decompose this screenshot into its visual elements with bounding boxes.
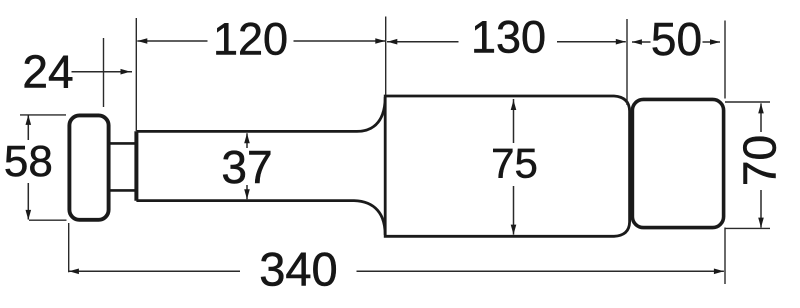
shaft (37 dia) with flare to cylinder [136,97,385,235]
svg-text:24: 24 [22,46,73,98]
extension line knob-left down to 340 line [68,223,70,272]
dimension 75 (vertical, inside cylinder) [513,99,515,235]
extension line C (x=385.7) [385,17,387,96]
svg-text:70: 70 [734,135,786,186]
main cylinder (75 dia, 130 long) [385,96,629,236]
dimension 340 [69,270,724,272]
right cap (70 dia, 50 long) [632,99,723,227]
knob (left end cap, 58 dia) [69,115,108,219]
extension lines for 70 [725,102,770,228]
svg-text:37: 37 [221,141,272,193]
neck between knob and shaft [109,143,136,190]
svg-text:75: 75 [491,139,538,186]
extension line A (x=103.5) [103,38,105,107]
svg-text:340: 340 [259,243,337,296]
dimension 58 (vertical) [27,116,29,220]
dimension 130 [387,41,626,43]
shaft left end face [134,131,138,201]
dimension 120 [137,40,385,42]
svg-text:50: 50 [651,13,702,65]
dimension 70 (vertical, rotated text) [760,103,762,227]
svg-text:130: 130 [471,11,546,62]
svg-text:58: 58 [4,137,53,186]
extension line E (x=725) [724,21,726,285]
extension lines for 58 [20,115,67,220]
dimension 24 [72,71,133,73]
dimension 50 [632,41,720,43]
extension line D (x=627) [626,19,628,105]
svg-text:120: 120 [213,14,288,65]
dimension 37 (vertical, inside shaft) [246,133,248,199]
extension line B (x=136.3) [135,18,137,131]
